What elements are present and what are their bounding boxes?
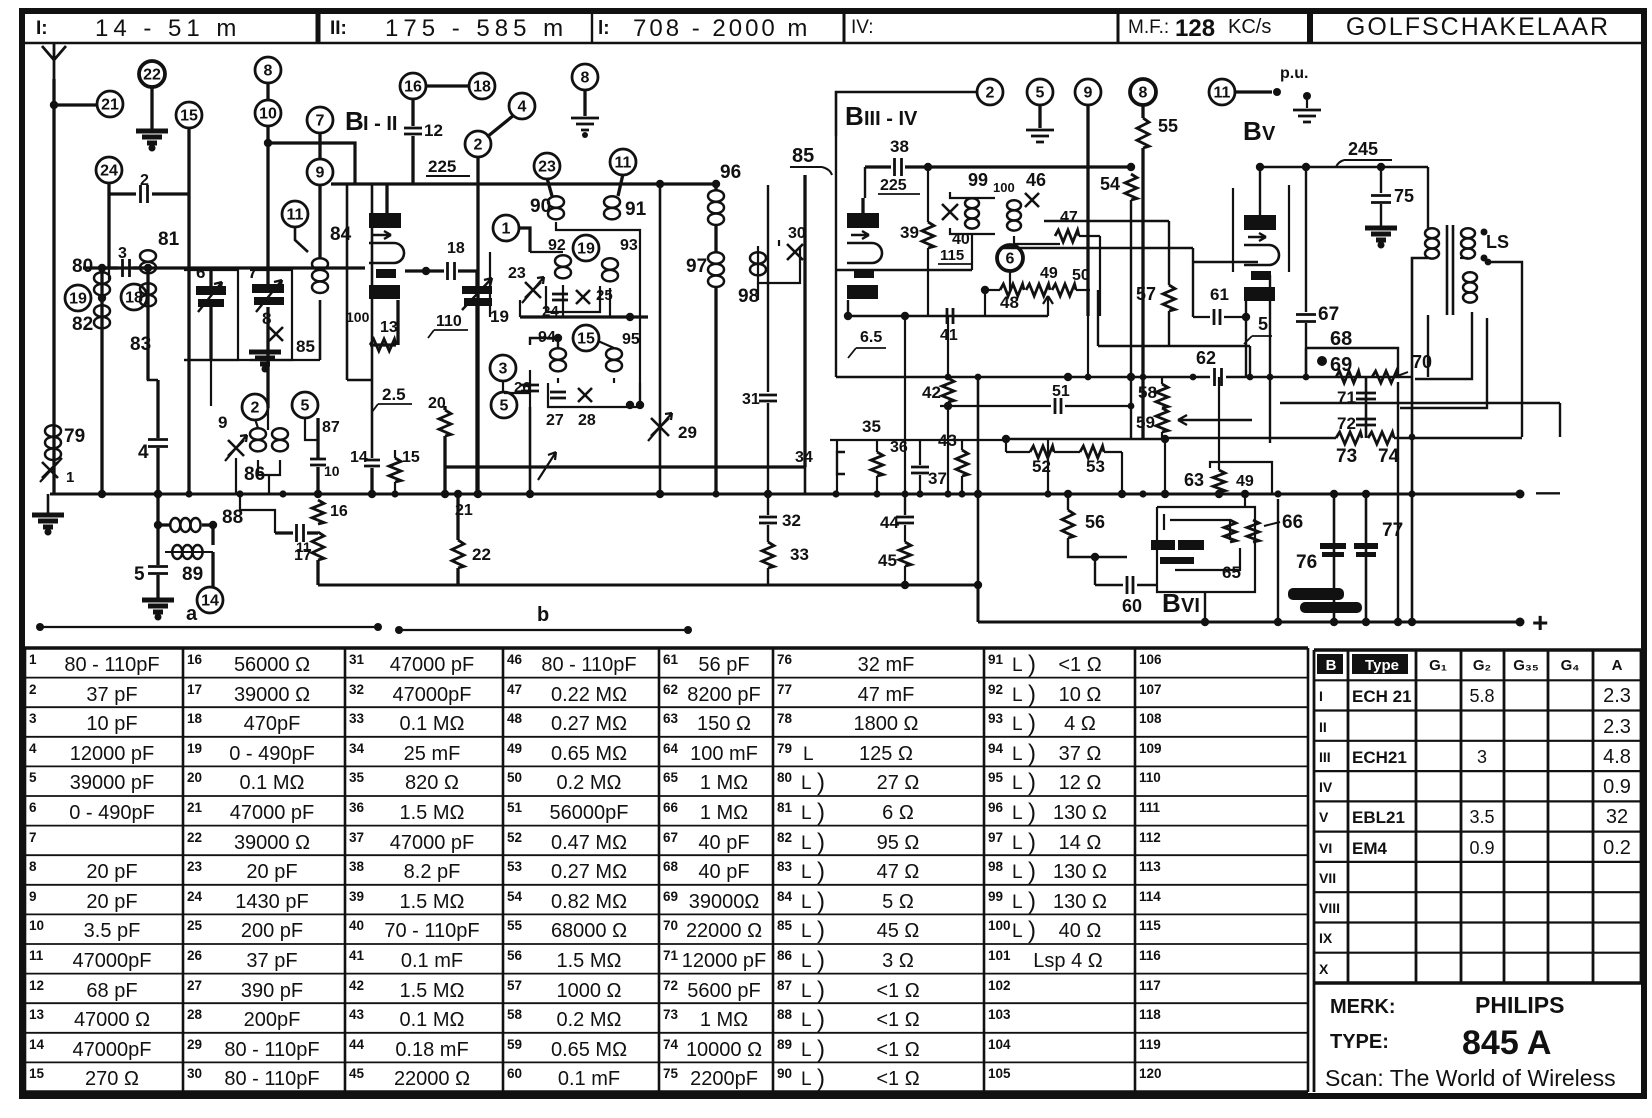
- svg-text:19: 19: [187, 741, 202, 756]
- svg-text:ECH21: ECH21: [1352, 748, 1407, 767]
- svg-text:30: 30: [187, 1066, 202, 1081]
- svg-text:52: 52: [507, 830, 522, 845]
- svg-text:1 MΩ: 1 MΩ: [700, 802, 748, 824]
- wire 24 down: [107, 182, 110, 268]
- terminal 11 mid: [610, 149, 636, 175]
- terminal 4 top: [509, 93, 535, 119]
- svg-text:L: L: [801, 862, 812, 883]
- svg-text:Scan: The World of Wireless: Scan: The World of Wireless: [1325, 1065, 1616, 1091]
- ground below antenna: [32, 515, 64, 527]
- svg-text:76: 76: [777, 652, 793, 667]
- capacitor 75: [1380, 167, 1382, 193]
- svg-text:8: 8: [264, 63, 273, 80]
- svg-text:VI: VI: [1319, 840, 1332, 856]
- svg-text:51: 51: [507, 800, 523, 815]
- tube table header: [1317, 654, 1343, 674]
- varcap 6: [196, 286, 226, 295]
- svg-text:L: L: [1012, 803, 1023, 824]
- svg-text:81: 81: [158, 229, 180, 250]
- junction dots left: [98, 490, 106, 498]
- svg-text:19: 19: [69, 291, 87, 308]
- svg-text:63: 63: [1184, 470, 1204, 490]
- svg-text:0.47 MΩ: 0.47 MΩ: [551, 832, 627, 854]
- svg-text:25: 25: [187, 918, 203, 933]
- box around 6: [184, 270, 238, 360]
- resistor 20: [443, 406, 446, 410]
- svg-text:L: L: [1012, 833, 1023, 854]
- wire coil92 down: [562, 285, 564, 317]
- bus y184: [331, 182, 718, 185]
- coil 90: [547, 178, 552, 196]
- wire 10 down: [266, 125, 269, 284]
- antenna: [42, 44, 66, 79]
- varcap 19 main: [462, 286, 492, 294]
- svg-text:91: 91: [988, 652, 1004, 667]
- svg-text:2: 2: [251, 400, 260, 417]
- svg-text:V: V: [1262, 123, 1276, 145]
- svg-text:2.5: 2.5: [382, 385, 406, 404]
- svg-text:45: 45: [878, 551, 897, 570]
- wire pot down: [1009, 270, 1011, 290]
- resistor 57: [1163, 285, 1175, 311]
- svg-text:12 Ω: 12 Ω: [1059, 772, 1102, 794]
- svg-text:98: 98: [988, 859, 1004, 874]
- svg-text:18: 18: [187, 711, 203, 726]
- svg-text:93: 93: [620, 237, 638, 254]
- svg-text:100: 100: [988, 918, 1011, 933]
- svg-text:39: 39: [349, 889, 364, 904]
- svg-text:77: 77: [1382, 520, 1403, 541]
- svg-text:): ): [1028, 651, 1036, 678]
- wire x1165 down: [1164, 439, 1166, 494]
- svg-text:130 Ω: 130 Ω: [1053, 861, 1107, 883]
- wire 89 down to 14: [211, 552, 214, 588]
- wire tube2 k down: [847, 300, 849, 316]
- wire 97 down: [714, 288, 717, 494]
- svg-text:58: 58: [1138, 383, 1157, 402]
- svg-text:109: 109: [1139, 741, 1162, 756]
- svg-text:84: 84: [777, 889, 793, 904]
- svg-text:): ): [817, 799, 825, 826]
- svg-text:2: 2: [29, 682, 37, 697]
- svg-text:88: 88: [777, 1007, 793, 1022]
- svg-text:): ): [1028, 681, 1036, 708]
- svg-text:V: V: [1319, 809, 1329, 825]
- wire coil94 down: [557, 378, 559, 383]
- varcap 7: [252, 284, 284, 293]
- svg-text:G₄: G₄: [1561, 657, 1580, 674]
- svg-text:1 MΩ: 1 MΩ: [700, 772, 748, 794]
- svg-text:68 pF: 68 pF: [86, 980, 137, 1002]
- svg-text:<1 Ω: <1 Ω: [876, 1039, 919, 1061]
- tube U3 EBL21 B V: [1244, 215, 1276, 230]
- svg-text:L: L: [1012, 773, 1023, 794]
- svg-text:5600 pF: 5600 pF: [687, 980, 760, 1002]
- svg-text:): ): [817, 1006, 825, 1033]
- svg-text:22000 Ω: 22000 Ω: [686, 920, 762, 942]
- svg-text:32: 32: [1606, 806, 1628, 828]
- svg-text:1000 Ω: 1000 Ω: [557, 980, 622, 1002]
- svg-text:): ): [817, 829, 825, 856]
- svg-text:12: 12: [424, 121, 443, 140]
- svg-text:100: 100: [346, 309, 370, 325]
- resistor 55: [1141, 104, 1144, 118]
- terminal 11 left-mid: [282, 201, 308, 227]
- svg-text:150 Ω: 150 Ω: [697, 713, 751, 735]
- svg-text:47000 pF: 47000 pF: [230, 802, 315, 824]
- svg-text:0 - 490pF: 0 - 490pF: [69, 802, 155, 824]
- svg-text:85: 85: [296, 337, 315, 356]
- resistor 43: [961, 440, 963, 450]
- svg-text:—: —: [1536, 479, 1560, 506]
- wire x1270: [1269, 275, 1271, 443]
- svg-text:5 Ω: 5 Ω: [882, 891, 914, 913]
- wire left coils down: [101, 345, 104, 494]
- svg-text:<1 Ω: <1 Ω: [876, 980, 919, 1002]
- svg-text:4: 4: [138, 442, 149, 463]
- svg-text:I - II: I - II: [363, 113, 397, 135]
- capacitor 12: [404, 128, 422, 134]
- svg-text:16: 16: [404, 79, 422, 96]
- terminal 14: [197, 587, 223, 613]
- coil 98: [750, 252, 766, 264]
- svg-text:22: 22: [143, 67, 161, 84]
- svg-text:46: 46: [507, 652, 523, 667]
- svg-text:3: 3: [29, 711, 37, 726]
- svg-text:<1 Ω: <1 Ω: [876, 1009, 919, 1031]
- svg-text:79: 79: [777, 741, 792, 756]
- terminal 11b: [1209, 79, 1235, 105]
- wire coil84 down: [319, 300, 322, 360]
- svg-text:0.1 MΩ: 0.1 MΩ: [400, 1009, 465, 1031]
- svg-text:57: 57: [1136, 284, 1156, 304]
- wire secondary return a: [1415, 312, 1472, 379]
- svg-text:1.5 MΩ: 1.5 MΩ: [557, 950, 622, 972]
- svg-text:63: 63: [663, 711, 679, 726]
- trimmer 9: [228, 440, 244, 456]
- tube table grid: [1313, 650, 1316, 983]
- svg-text:G₃₅: G₃₅: [1513, 657, 1539, 674]
- wire x1169 upper: [1168, 221, 1170, 285]
- svg-text:19: 19: [490, 307, 509, 326]
- svg-text:40: 40: [349, 918, 364, 933]
- svg-text:9: 9: [218, 413, 227, 432]
- minus bus: [50, 493, 1520, 496]
- svg-text:15: 15: [577, 331, 595, 348]
- svg-text:II:: II:: [330, 18, 347, 39]
- header divider III/IV: [843, 14, 846, 43]
- svg-text:28: 28: [187, 1007, 203, 1022]
- svg-text:18: 18: [473, 79, 491, 96]
- svg-text:175 - 585 m: 175 - 585 m: [385, 15, 568, 42]
- svg-text:L: L: [801, 803, 812, 824]
- plus bus: [978, 621, 1520, 624]
- terminal 5b: [1027, 79, 1053, 105]
- svg-text:VI: VI: [1181, 595, 1200, 617]
- svg-text:97: 97: [988, 830, 1003, 845]
- svg-text:105: 105: [988, 1066, 1011, 1081]
- resistor 15 mid: [394, 450, 396, 458]
- trimmer 28: [578, 388, 592, 402]
- wire circle5mid link: [305, 417, 318, 440]
- svg-text:89: 89: [182, 564, 203, 585]
- svg-text:82: 82: [777, 830, 792, 845]
- svg-text:80 - 110pF: 80 - 110pF: [541, 654, 636, 676]
- junction dots plus bus: [1201, 618, 1208, 625]
- svg-text:KC/s: KC/s: [1228, 16, 1271, 38]
- wire 77 vert: [1365, 494, 1368, 622]
- svg-text:L: L: [801, 951, 812, 972]
- coil 86b: [272, 428, 288, 440]
- svg-text:): ): [817, 917, 825, 944]
- resistor 63: [1218, 377, 1220, 470]
- wire 88 to 89: [211, 525, 214, 545]
- wire osc bottom: [529, 370, 531, 407]
- wire antenna down: [52, 79, 55, 494]
- svg-text:3.5 pF: 3.5 pF: [84, 920, 141, 942]
- svg-text:130 Ω: 130 Ω: [1053, 891, 1107, 913]
- svg-text:66: 66: [663, 800, 679, 815]
- terminal 7: [307, 107, 333, 133]
- wire secondary return c: [1488, 262, 1522, 437]
- coil 81: [140, 250, 156, 262]
- terminal 18 left: [121, 284, 147, 310]
- svg-text:270 Ω: 270 Ω: [85, 1068, 139, 1090]
- svg-text:): ): [1028, 917, 1036, 944]
- svg-text:b: b: [537, 604, 549, 626]
- coil 84: [312, 258, 328, 270]
- svg-text:2: 2: [986, 85, 995, 102]
- svg-text:L: L: [801, 892, 812, 913]
- resistor 70: [1336, 371, 1360, 383]
- svg-text:112: 112: [1139, 830, 1161, 845]
- wire x1428 down: [1427, 315, 1429, 377]
- capacitor 2: [109, 192, 136, 195]
- terminal 19 mid: [573, 235, 599, 261]
- wire x905 down: [904, 316, 906, 494]
- terminal 21: [97, 91, 123, 117]
- svg-text:G₁: G₁: [1429, 657, 1447, 674]
- svg-text:96: 96: [988, 800, 1004, 815]
- box 27-28: [548, 383, 640, 407]
- svg-text:119: 119: [1139, 1037, 1161, 1052]
- svg-text:33: 33: [790, 545, 809, 564]
- svg-text:708 - 2000 m: 708 - 2000 m: [633, 15, 810, 42]
- header divider II/III: [591, 14, 593, 43]
- svg-text:20: 20: [428, 395, 446, 412]
- svg-text:1.5 MΩ: 1.5 MΩ: [400, 802, 465, 824]
- svg-text:130 Ω: 130 Ω: [1053, 802, 1107, 824]
- junction dots y377: [945, 374, 952, 381]
- resistor 33: [767, 525, 769, 542]
- svg-text:43: 43: [349, 1007, 365, 1022]
- svg-text:3: 3: [499, 361, 508, 378]
- svg-text:200 pF: 200 pF: [241, 920, 303, 942]
- svg-text:115: 115: [940, 247, 964, 264]
- svg-text:60: 60: [1122, 596, 1142, 616]
- wire x1193 upper: [1192, 248, 1194, 317]
- wire x835 down: [835, 136, 837, 377]
- svg-text:0 - 490pF: 0 - 490pF: [229, 743, 315, 765]
- svg-text:12: 12: [29, 978, 44, 993]
- wire x1250: [1249, 346, 1251, 377]
- svg-text:71: 71: [663, 948, 679, 963]
- svg-text:60: 60: [507, 1066, 522, 1081]
- transformer core: [1447, 225, 1453, 315]
- svg-text:37: 37: [349, 830, 364, 845]
- svg-text:12000 pF: 12000 pF: [70, 743, 155, 765]
- svg-text:115: 115: [1139, 918, 1161, 933]
- svg-text:80 - 110pF: 80 - 110pF: [64, 654, 159, 676]
- svg-text:27: 27: [187, 978, 202, 993]
- svg-text:8: 8: [581, 70, 590, 87]
- svg-text:87: 87: [322, 419, 340, 436]
- wire varcap7 down: [266, 307, 269, 408]
- svg-text:29: 29: [678, 423, 697, 442]
- coil 100 with trimmer: [1007, 200, 1021, 210]
- svg-text:49: 49: [1040, 265, 1058, 282]
- terminal 2 mid: [242, 394, 268, 420]
- svg-text:21: 21: [187, 800, 203, 815]
- svg-text:EM4: EM4: [1352, 839, 1388, 858]
- svg-text:32: 32: [782, 511, 801, 530]
- wire y438 long: [1165, 437, 1336, 440]
- svg-text:VII: VII: [1319, 870, 1336, 886]
- junction dots bus: [98, 490, 105, 497]
- svg-text:EBL21: EBL21: [1352, 808, 1405, 827]
- svg-text:0.27 MΩ: 0.27 MΩ: [551, 713, 627, 735]
- svg-text:8200 pF: 8200 pF: [687, 684, 760, 706]
- svg-text:33: 33: [349, 711, 365, 726]
- output transformer primary: [1427, 167, 1429, 228]
- wire x158: [156, 380, 159, 438]
- svg-text:37 pF: 37 pF: [246, 950, 297, 972]
- svg-text:89: 89: [777, 1037, 792, 1052]
- box 98-30: [758, 246, 800, 283]
- wire 11 to coil 84: [295, 226, 308, 252]
- svg-text:113: 113: [1139, 859, 1161, 874]
- svg-text:390 pF: 390 pF: [241, 980, 303, 1002]
- svg-text:I: I: [1319, 688, 1323, 704]
- svg-text:820 Ω: 820 Ω: [405, 772, 459, 794]
- svg-text:31: 31: [742, 391, 760, 408]
- trimmer 25: [576, 290, 590, 304]
- svg-text:200pF: 200pF: [244, 1009, 301, 1031]
- wire x640 down: [639, 317, 641, 405]
- svg-text:47000 Ω: 47000 Ω: [74, 1009, 150, 1031]
- svg-text:14 Ω: 14 Ω: [1059, 832, 1102, 854]
- svg-text:99: 99: [968, 170, 988, 190]
- EM4 box outer: [1157, 507, 1255, 592]
- svg-text:82: 82: [72, 314, 93, 335]
- wire 9 down: [318, 184, 321, 258]
- terminal 24: [96, 157, 122, 183]
- tube U2 ECH21 B III-IV: [847, 213, 879, 228]
- trimmer 29: [651, 418, 669, 436]
- coil 94: [550, 348, 566, 360]
- svg-text:0.82 MΩ: 0.82 MΩ: [551, 891, 627, 913]
- svg-text:91: 91: [625, 199, 647, 220]
- svg-text:73: 73: [1336, 446, 1357, 467]
- svg-text:5: 5: [1036, 85, 1045, 102]
- svg-text:17: 17: [187, 682, 202, 697]
- secondary winding 2: [1463, 272, 1477, 282]
- svg-text:9: 9: [29, 889, 37, 904]
- svg-text:10000 Ω: 10000 Ω: [686, 1039, 762, 1061]
- svg-text:0.9: 0.9: [1603, 776, 1631, 798]
- capacitor 67: [1305, 167, 1307, 312]
- wire x372: [371, 184, 374, 458]
- svg-text:86: 86: [777, 948, 793, 963]
- svg-text:II: II: [1319, 719, 1327, 735]
- wire 38 left down: [864, 167, 866, 198]
- svg-text:0.27 MΩ: 0.27 MΩ: [551, 861, 627, 883]
- svg-text:0.9: 0.9: [1469, 838, 1494, 858]
- svg-text:p.u.: p.u.: [1280, 65, 1308, 82]
- wire y440 left: [830, 439, 1008, 441]
- svg-text:18: 18: [447, 240, 465, 257]
- terminal 10: [255, 100, 281, 126]
- resistor 45: [904, 525, 906, 542]
- wire 16-12: [411, 98, 414, 126]
- capacitor 14 mid: [364, 460, 380, 466]
- wire 16-18: [425, 84, 470, 87]
- terminal 8: [255, 57, 281, 83]
- svg-text:54: 54: [507, 889, 523, 904]
- svg-text:L: L: [801, 833, 812, 854]
- coil 91: [618, 174, 623, 196]
- svg-text:50: 50: [1072, 267, 1090, 284]
- wire 22 down: [150, 86, 153, 130]
- svg-text:L: L: [1012, 714, 1023, 735]
- wire x1048 low: [1047, 440, 1049, 494]
- svg-text:98: 98: [738, 286, 759, 307]
- coil 97: [708, 252, 724, 264]
- resistor 58: [1161, 377, 1163, 384]
- terminal 16: [400, 73, 426, 99]
- capacitor 11 low: [275, 531, 293, 534]
- trimmer 1: [42, 462, 58, 478]
- svg-text:M.F.:: M.F.:: [1128, 17, 1169, 38]
- wire to terminal 21: [54, 103, 98, 106]
- svg-text:68: 68: [663, 859, 679, 874]
- resistor 48-49-50 chain: [985, 289, 1000, 291]
- wire x1245 low: [1244, 494, 1246, 507]
- svg-text:110: 110: [1139, 770, 1161, 785]
- svg-text:64: 64: [663, 741, 679, 756]
- svg-text:34: 34: [349, 741, 365, 756]
- wire y167 right: [1260, 166, 1428, 169]
- wire cathode left: [83, 266, 365, 269]
- svg-text:37: 37: [928, 469, 947, 488]
- svg-text:L: L: [801, 981, 812, 1002]
- svg-text:1 MΩ: 1 MΩ: [700, 1009, 748, 1031]
- terminal 2 top: [465, 131, 491, 157]
- svg-text:40: 40: [952, 231, 970, 248]
- svg-text:39: 39: [900, 223, 919, 242]
- svg-text:13: 13: [29, 1007, 45, 1022]
- svg-text:6.5: 6.5: [860, 329, 882, 346]
- capacitor 5: [156, 525, 159, 565]
- wire x660: [659, 184, 662, 494]
- trimmer 23: [525, 282, 541, 298]
- terminal 23 mid: [534, 153, 560, 179]
- capacitor 38: [865, 165, 891, 168]
- svg-text:L: L: [1012, 921, 1023, 942]
- svg-text:27 Ω: 27 Ω: [877, 772, 920, 794]
- box 24-25: [546, 286, 600, 312]
- dimension line b: [399, 629, 688, 631]
